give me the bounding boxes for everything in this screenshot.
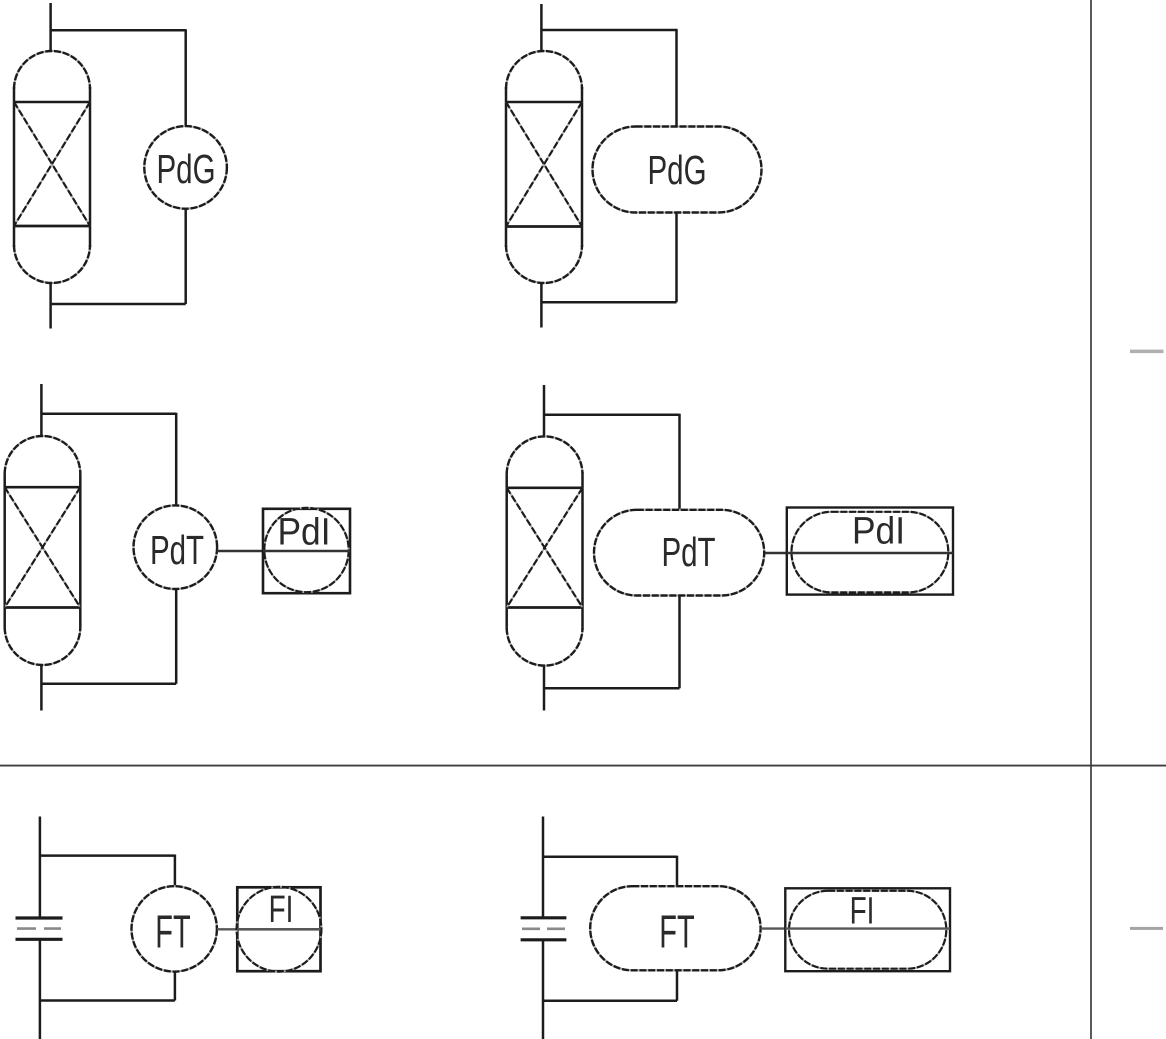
svg-text:PdI: PdI xyxy=(277,510,330,552)
svg-text:PdI: PdI xyxy=(852,509,905,551)
svg-text:PdT: PdT xyxy=(150,527,204,573)
svg-text:PdG: PdG xyxy=(647,147,706,193)
svg-text:PdT: PdT xyxy=(661,529,715,575)
svg-text:FT: FT xyxy=(659,907,694,958)
svg-text:FT: FT xyxy=(155,907,190,958)
svg-text:FI: FI xyxy=(850,891,875,933)
svg-text:FI: FI xyxy=(269,889,294,931)
svg-text:PdG: PdG xyxy=(156,146,215,192)
